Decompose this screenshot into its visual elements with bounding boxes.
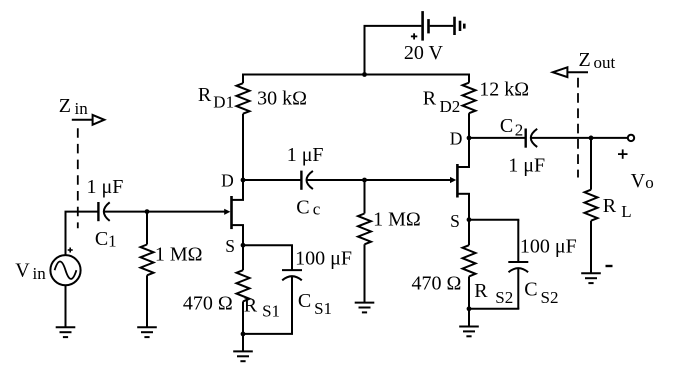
svg-text:R: R: [474, 280, 488, 302]
svg-text:C: C: [524, 278, 537, 300]
svg-text:R: R: [603, 195, 617, 217]
svg-text:S: S: [225, 236, 235, 256]
svg-text:S: S: [450, 211, 460, 231]
svg-text:c: c: [313, 199, 321, 218]
svg-text:20 V: 20 V: [404, 42, 444, 64]
svg-text:S2: S2: [495, 288, 513, 307]
svg-text:V: V: [631, 170, 646, 192]
svg-text:100 μF: 100 μF: [295, 248, 352, 270]
svg-text:2: 2: [515, 121, 524, 140]
svg-text:Z: Z: [59, 95, 71, 117]
svg-text:R: R: [244, 295, 258, 317]
svg-text:470 Ω: 470 Ω: [183, 293, 233, 315]
svg-text:S1: S1: [314, 299, 332, 318]
svg-text:D: D: [221, 170, 234, 190]
svg-text:1 μF: 1 μF: [87, 176, 124, 198]
svg-text:1: 1: [108, 232, 117, 251]
svg-text:L: L: [621, 202, 631, 221]
svg-text:V: V: [15, 259, 30, 281]
svg-text:D1: D1: [213, 93, 234, 112]
svg-text:R: R: [198, 84, 212, 106]
svg-text:S2: S2: [541, 288, 559, 307]
svg-text:C: C: [298, 290, 311, 312]
svg-text:R: R: [423, 88, 437, 110]
svg-text:Z: Z: [579, 49, 591, 71]
svg-text:C: C: [95, 228, 108, 250]
svg-text:1 μF: 1 μF: [508, 155, 545, 177]
svg-text:100 μF: 100 μF: [520, 236, 577, 258]
svg-text:C: C: [296, 197, 309, 219]
svg-text:in: in: [33, 264, 47, 283]
svg-text:1 MΩ: 1 MΩ: [373, 209, 421, 231]
svg-text:D2: D2: [440, 97, 461, 116]
svg-text:30 kΩ: 30 kΩ: [257, 87, 307, 109]
svg-text:470 Ω: 470 Ω: [412, 272, 462, 294]
svg-text:1 MΩ: 1 MΩ: [155, 243, 203, 265]
svg-text:S1: S1: [262, 302, 280, 321]
svg-text:C: C: [500, 115, 513, 137]
svg-text:o: o: [645, 173, 654, 192]
svg-text:D: D: [450, 128, 463, 148]
svg-text:12 kΩ: 12 kΩ: [479, 78, 529, 100]
svg-text:in: in: [75, 99, 89, 118]
svg-text:1 μF: 1 μF: [287, 144, 324, 166]
svg-text:out: out: [594, 53, 616, 72]
